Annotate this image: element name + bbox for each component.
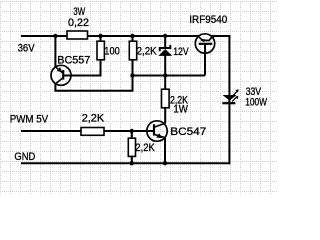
svg-text:2,2K: 2,2K [82, 112, 105, 124]
svg-text:BC547: BC547 [170, 126, 206, 138]
svg-text:100W: 100W [245, 97, 267, 109]
svg-text:1W: 1W [173, 104, 188, 116]
svg-text:GND: GND [14, 151, 35, 163]
svg-text:100: 100 [104, 46, 120, 58]
svg-text:36V: 36V [18, 42, 36, 54]
svg-text:IRF9540: IRF9540 [189, 14, 227, 26]
svg-text:BC557: BC557 [57, 54, 90, 66]
svg-text:2,2K: 2,2K [137, 46, 158, 58]
svg-text:12V: 12V [173, 46, 189, 58]
svg-text:PWM 5V: PWM 5V [10, 113, 49, 125]
svg-text:0,22: 0,22 [68, 17, 89, 29]
svg-text:2,2K: 2,2K [135, 142, 155, 154]
